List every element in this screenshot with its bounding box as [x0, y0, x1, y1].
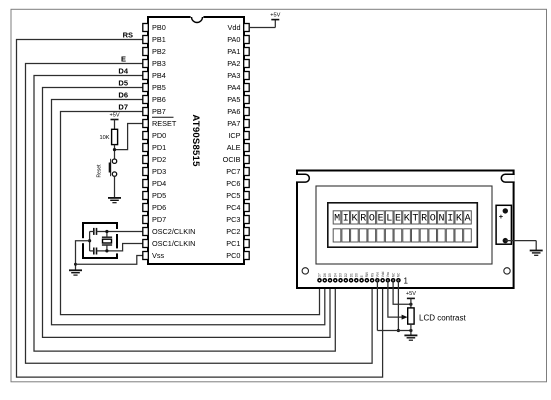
svg-text:PB3: PB3 [152, 59, 166, 68]
svg-text:+5V: +5V [406, 291, 416, 297]
svg-text:T: T [412, 214, 418, 225]
svg-text:OCIB: OCIB [223, 155, 241, 164]
svg-text:PC2: PC2 [226, 227, 240, 236]
svg-text:O: O [369, 214, 375, 225]
svg-text:PA5: PA5 [227, 95, 240, 104]
svg-text:RW: RW [365, 272, 369, 277]
svg-text:PA2: PA2 [227, 59, 240, 68]
svg-text:OSC1/CLKIN: OSC1/CLKIN [152, 239, 195, 248]
svg-text:R: R [360, 214, 366, 225]
svg-text:Vee: Vee [376, 272, 380, 278]
svg-text:PC7: PC7 [226, 167, 240, 176]
svg-text:K: K [456, 214, 462, 225]
svg-text:PD3: PD3 [152, 167, 166, 176]
svg-text:N: N [438, 214, 444, 225]
svg-text:PB7: PB7 [152, 107, 166, 116]
svg-text:D7: D7 [118, 102, 128, 111]
svg-text:+5V: +5V [270, 12, 280, 18]
svg-text:Vdd: Vdd [381, 271, 385, 277]
svg-text:E: E [378, 214, 384, 225]
svg-text:I: I [447, 214, 453, 225]
svg-text:PD0: PD0 [152, 131, 166, 140]
svg-text:PB2: PB2 [152, 47, 166, 56]
svg-text:PA1: PA1 [227, 47, 240, 56]
svg-text:M: M [334, 214, 340, 225]
svg-text:E: E [121, 54, 126, 63]
svg-text:PC6: PC6 [226, 179, 240, 188]
svg-text:NC: NC [397, 272, 401, 277]
svg-text:RS: RS [123, 30, 133, 39]
svg-text:Vss: Vss [386, 272, 390, 278]
svg-text:PD4: PD4 [152, 179, 166, 188]
svg-text:NC: NC [391, 272, 395, 277]
svg-text:D5: D5 [118, 78, 128, 87]
svg-text:PA0: PA0 [227, 35, 240, 44]
svg-text:K: K [351, 214, 357, 225]
svg-text:PB4: PB4 [152, 71, 166, 80]
svg-text:D5: D5 [328, 273, 332, 277]
svg-text:PD7: PD7 [152, 215, 166, 224]
svg-text:PA6: PA6 [227, 107, 240, 116]
svg-text:Vss: Vss [152, 251, 165, 260]
svg-text:D1: D1 [349, 273, 353, 277]
svg-text:PC4: PC4 [226, 203, 240, 212]
svg-text:R: R [421, 214, 427, 225]
svg-text:PA4: PA4 [227, 83, 240, 92]
svg-text:RESET: RESET [152, 119, 177, 128]
svg-text:PC0: PC0 [226, 251, 240, 260]
svg-text:Vdd: Vdd [228, 23, 241, 32]
svg-text:PA7: PA7 [227, 119, 240, 128]
svg-text:AT90S8515: AT90S8515 [190, 114, 201, 167]
svg-text:PB5: PB5 [152, 83, 166, 92]
svg-text:A: A [465, 214, 471, 225]
svg-text:D6: D6 [323, 273, 327, 277]
svg-text:ICP: ICP [228, 131, 240, 140]
svg-text:10K: 10K [100, 135, 110, 141]
svg-text:ALE: ALE [227, 143, 241, 152]
svg-text:D4: D4 [333, 273, 337, 277]
svg-text:K: K [404, 214, 410, 225]
svg-text:PD6: PD6 [152, 203, 166, 212]
svg-text:PD5: PD5 [152, 191, 166, 200]
svg-text:PC1: PC1 [226, 239, 240, 248]
svg-text:PB1: PB1 [152, 35, 166, 44]
svg-text:PC3: PC3 [226, 215, 240, 224]
svg-text:D2: D2 [344, 273, 348, 277]
svg-text:Reset: Reset [97, 164, 103, 178]
svg-text:PD2: PD2 [152, 155, 166, 164]
svg-text:E: E [395, 214, 401, 225]
svg-text:E: E [360, 275, 364, 277]
svg-text:+: + [499, 212, 504, 221]
svg-text:D0: D0 [355, 273, 359, 277]
svg-text:D3: D3 [339, 273, 343, 277]
svg-text:PA3: PA3 [227, 71, 240, 80]
svg-text:D4: D4 [118, 66, 128, 75]
svg-text:PD1: PD1 [152, 143, 166, 152]
svg-text:PB6: PB6 [152, 95, 166, 104]
svg-text:I: I [343, 214, 349, 225]
svg-text:L: L [386, 214, 392, 225]
svg-text:PC5: PC5 [226, 191, 240, 200]
svg-text:D6: D6 [118, 90, 128, 99]
svg-text:RS: RS [370, 273, 374, 277]
svg-text:+5V: +5V [109, 112, 119, 118]
svg-text:1: 1 [404, 276, 409, 285]
svg-text:OSC2/CLKIN: OSC2/CLKIN [152, 227, 195, 236]
svg-text:LCD contrast: LCD contrast [419, 313, 466, 322]
svg-text:PB0: PB0 [152, 23, 166, 32]
svg-text:D7: D7 [318, 273, 322, 277]
svg-text:O: O [430, 214, 436, 225]
